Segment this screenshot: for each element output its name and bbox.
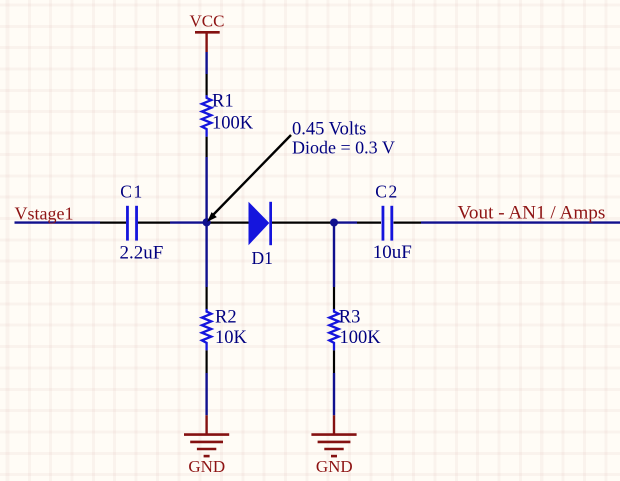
svg-text:10K: 10K xyxy=(215,328,248,348)
svg-text:VCC: VCC xyxy=(190,11,225,30)
svg-text:D1: D1 xyxy=(252,248,273,268)
svg-text:2.2uF: 2.2uF xyxy=(120,242,164,263)
svg-text:R3: R3 xyxy=(339,307,361,327)
svg-text:Vstage1: Vstage1 xyxy=(15,203,74,223)
svg-text:Diode = 0.3 V: Diode = 0.3 V xyxy=(292,138,395,158)
svg-text:R2: R2 xyxy=(215,307,237,327)
svg-text:R1: R1 xyxy=(212,91,234,111)
svg-text:C1: C1 xyxy=(120,182,143,202)
svg-text:10uF: 10uF xyxy=(373,242,412,263)
svg-text:C2: C2 xyxy=(375,182,398,202)
svg-text:0.45 Volts: 0.45 Volts xyxy=(292,120,366,140)
svg-text:100K: 100K xyxy=(212,113,254,133)
svg-text:Vout - AN1 / Amps: Vout - AN1 / Amps xyxy=(458,202,606,223)
svg-text:GND: GND xyxy=(316,457,353,476)
svg-text:100K: 100K xyxy=(340,328,382,348)
svg-text:GND: GND xyxy=(188,457,225,476)
